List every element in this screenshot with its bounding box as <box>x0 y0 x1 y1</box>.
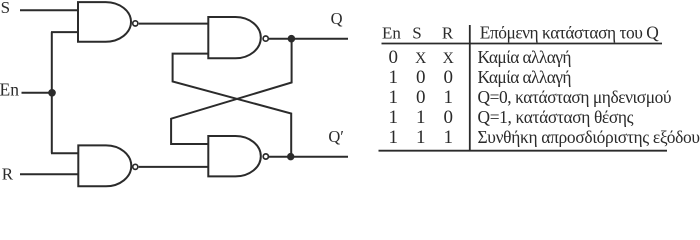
svg-text:Καμία αλλαγή: Καμία αλλαγή <box>478 67 572 87</box>
svg-text:S: S <box>412 24 421 43</box>
svg-text:Επόμενη κατάσταση του Q: Επόμενη κατάσταση του Q <box>480 23 659 43</box>
svg-text:Q=0, κατάσταση μηδενισμού: Q=0, κατάσταση μηδενισμού <box>478 87 672 107</box>
svg-text:0: 0 <box>416 67 426 88</box>
svg-text:1: 1 <box>416 107 426 128</box>
svg-text:En: En <box>382 24 401 43</box>
svg-text:Q′: Q′ <box>328 127 344 146</box>
svg-text:1: 1 <box>443 127 453 148</box>
svg-text:Q=1, κατάσταση θέσης: Q=1, κατάσταση θέσης <box>478 107 634 127</box>
svg-text:X: X <box>443 50 454 67</box>
svg-text:1: 1 <box>388 67 398 88</box>
svg-text:En: En <box>0 79 19 99</box>
svg-text:S: S <box>1 0 10 17</box>
svg-text:Συνθήκη απροσδιόριστης εξόδου: Συνθήκη απροσδιόριστης εξόδου <box>478 127 700 147</box>
svg-text:X: X <box>415 50 426 67</box>
svg-text:Καμία αλλαγή: Καμία αλλαγή <box>478 47 572 67</box>
svg-text:1: 1 <box>388 87 398 108</box>
svg-text:Q: Q <box>331 9 343 28</box>
svg-text:0: 0 <box>443 107 453 128</box>
svg-text:R: R <box>442 24 454 43</box>
svg-text:1: 1 <box>443 87 453 108</box>
svg-text:0: 0 <box>443 67 453 88</box>
svg-text:1: 1 <box>388 127 398 148</box>
svg-text:1: 1 <box>388 107 398 128</box>
svg-text:0: 0 <box>416 87 426 108</box>
svg-text:1: 1 <box>416 127 426 148</box>
svg-text:0: 0 <box>388 47 398 68</box>
svg-text:R: R <box>2 164 14 183</box>
